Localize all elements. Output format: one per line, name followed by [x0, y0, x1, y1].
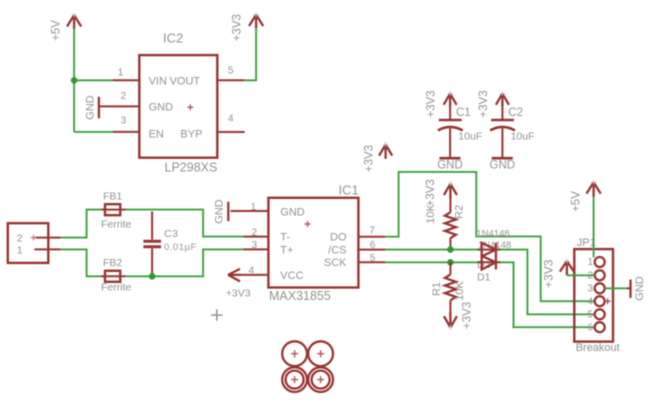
mounting hole H1 [282, 341, 307, 366]
supply +3V3 flag (floating, DO net) [363, 142, 392, 172]
IC1 MAX31855 [231, 183, 386, 304]
svg-text:FB2: FB2 [103, 257, 122, 269]
svg-text:C3: C3 [164, 228, 178, 240]
wire SCK net (left of diode) [385, 261, 478, 263]
ground GND at JP1 pin 3 [627, 276, 647, 301]
ground GND at IC1 pin 1 [214, 199, 229, 224]
svg-text:4: 4 [228, 114, 234, 125]
svg-text:FB1: FB1 [103, 191, 122, 203]
svg-text:IC1: IC1 [339, 183, 359, 198]
svg-text:GND: GND [490, 160, 516, 172]
svg-text:3: 3 [587, 284, 593, 295]
svg-text:+3V3: +3V3 [462, 302, 474, 329]
svg-text:1: 1 [587, 257, 593, 268]
svg-text:10uF: 10uF [458, 131, 482, 143]
mounting hole H3 [282, 367, 307, 392]
svg-text:T+: T+ [280, 244, 293, 256]
svg-text:D1: D1 [477, 272, 491, 284]
resistor R2 10K with +3V3 flag [425, 179, 466, 249]
svg-text:1: 1 [118, 68, 124, 79]
connector (thermocouple input) [8, 223, 61, 263]
svg-text:5: 5 [587, 310, 593, 321]
svg-text:10K: 10K [425, 204, 437, 224]
capacitor C3 0.01uF [143, 212, 196, 277]
svg-text:+3V3: +3V3 [478, 90, 490, 117]
wire to IC2 pin1 [74, 79, 113, 81]
svg-text:6: 6 [587, 322, 593, 333]
connector JP1 Breakout [574, 237, 619, 354]
svg-text:1: 1 [251, 202, 257, 213]
svg-text:5: 5 [370, 253, 376, 264]
junction R2 on /CS [447, 246, 454, 253]
origin cross [211, 309, 223, 321]
svg-text:3: 3 [251, 240, 257, 251]
svg-text:2: 2 [17, 232, 23, 244]
svg-text:0.01µF: 0.01µF [164, 242, 197, 253]
supply +3V3 flag (top, IC2 output) [232, 12, 264, 41]
svg-text:Ferrite: Ferrite [101, 281, 131, 293]
wire IC2 pin5 to +3V3 [245, 28, 256, 80]
svg-text:LP298XS: LP298XS [165, 161, 218, 175]
wire to IC2 pin3 [74, 131, 113, 133]
svg-text:10uF: 10uF [511, 131, 535, 143]
svg-text:R1: R1 [431, 282, 443, 296]
supply +3V3 flag at JP1 pin 2 [541, 258, 573, 288]
svg-text:2: 2 [121, 91, 127, 102]
svg-text:VCC: VCC [280, 270, 303, 282]
wire FB2 to T+ branch [126, 249, 244, 276]
mounting hole H4 [308, 367, 333, 392]
resistor R1 10K with +3V3 flag (down) [431, 262, 474, 330]
diode D1 (series in SCK) [478, 256, 501, 270]
supply +3V3 arrow (left) at IC1 pin 4 [226, 269, 251, 300]
wire /CS net (right of diode) [500, 250, 595, 315]
junction +5V net at IC2 pin 1 [71, 77, 78, 84]
svg-text:/CS: /CS [328, 244, 346, 256]
svg-text:4: 4 [248, 266, 254, 277]
svg-text:VOUT: VOUT [170, 75, 201, 87]
svg-text:1: 1 [17, 245, 23, 257]
diode D2 (series in /CS) [478, 243, 501, 257]
junction R1 on SCK [447, 259, 454, 266]
svg-text:7: 7 [369, 226, 375, 237]
wire +5V vertical [73, 29, 75, 132]
svg-text:+3V3: +3V3 [425, 179, 437, 206]
junction C3 / FB2 / T+ net [149, 273, 156, 280]
svg-text:GND: GND [84, 95, 96, 120]
svg-text:+3V3: +3V3 [426, 90, 438, 117]
svg-text:BYP: BYP [180, 128, 202, 140]
svg-text:10K: 10K [454, 281, 466, 301]
ferrite bead FB1 [101, 191, 131, 231]
capacitor C1 10uF with +3V3 flag and GND [426, 90, 483, 171]
svg-text:GND: GND [634, 276, 646, 301]
supply +5V flag (top left) [51, 12, 82, 40]
svg-text:R2: R2 [454, 205, 466, 219]
wire FB1 to T- branch [126, 210, 244, 237]
svg-text:+3V3: +3V3 [363, 145, 375, 172]
svg-text:GND: GND [149, 102, 174, 114]
svg-text:Breakout: Breakout [576, 342, 620, 354]
svg-text:+5V: +5V [570, 191, 582, 212]
ferrite bead FB2 [101, 257, 131, 293]
svg-text:+3V3: +3V3 [232, 14, 244, 41]
svg-text:C2: C2 [508, 107, 523, 119]
svg-text:GND: GND [437, 160, 463, 172]
svg-text:+3V3: +3V3 [226, 288, 251, 300]
svg-text:T-: T- [280, 232, 290, 244]
wire +3V3 to JP1 pin2 [567, 274, 595, 276]
ground GND at IC2 pin 2 [84, 95, 98, 120]
mounting hole H2 [308, 341, 333, 366]
svg-text:GND: GND [214, 199, 226, 224]
svg-text:+3V3: +3V3 [541, 259, 555, 288]
svg-text:Ferrite: Ferrite [101, 219, 131, 231]
svg-text:DO: DO [330, 232, 347, 244]
wire connector pin2 to FB1 [61, 210, 105, 238]
wire DO net [385, 172, 594, 301]
svg-text:+5V: +5V [51, 20, 63, 41]
svg-text:GND: GND [280, 206, 305, 218]
svg-text:1N4148: 1N4148 [476, 228, 509, 239]
capacitor C2 10uF with +3V3 flag and GND [478, 90, 535, 171]
wire connector pin1 to FB2 [61, 249, 105, 276]
svg-text:4: 4 [587, 296, 593, 307]
svg-text:3: 3 [121, 115, 127, 126]
wire +5V to JP1 pin1 [593, 197, 595, 258]
svg-text:SCK: SCK [324, 257, 347, 269]
svg-text:5: 5 [228, 66, 234, 77]
svg-text:C1: C1 [456, 107, 471, 119]
svg-text:2: 2 [251, 227, 257, 238]
svg-text:EN: EN [149, 128, 164, 140]
svg-text:6: 6 [370, 240, 376, 251]
svg-text:IC2: IC2 [163, 31, 183, 46]
svg-text:MAX31855: MAX31855 [269, 289, 331, 303]
wire SCK net (right of diode) [500, 262, 595, 327]
wire /CS net (left of diode) [385, 249, 478, 251]
wire JP1 pin3 to GND [605, 287, 627, 289]
supply +5V flag at JP1 pin 1 [570, 180, 600, 212]
IC2 LP298XS [99, 31, 245, 175]
svg-text:VIN: VIN [149, 75, 167, 87]
